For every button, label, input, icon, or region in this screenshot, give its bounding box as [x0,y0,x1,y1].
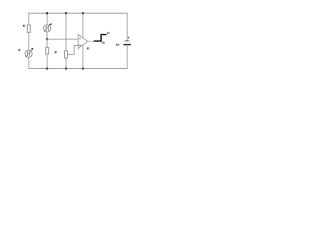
label 9v [107,32,110,35]
label plus polarity [128,37,130,39]
node junction dot mid [46,38,48,40]
node junction dot bottom branch3 [65,68,67,70]
wire R1 to I1 [28,32,30,50]
label C1 value [116,44,119,46]
wire mid node to op-amp inverting input [47,38,78,40]
wire I2 to node [46,32,48,39]
wire branch2 top [46,13,48,25]
waveform step annotation [94,35,107,42]
current source I2 [44,23,52,32]
wire bottom rail [29,68,127,70]
wire left branch upper [28,13,30,25]
node junction dot top rail supply [82,12,84,14]
node junction dot top rail branch2 [46,12,48,14]
current source I1 [25,48,33,58]
label R2 [55,51,57,53]
label R1 [23,25,25,27]
wire R2 to bottom rail [46,54,48,69]
label I1 [18,49,20,51]
wire right branch top [126,13,128,41]
wire supply top stub [82,13,84,37]
node junction dot bottom supply [82,68,84,70]
wire supply bottom stub [82,45,84,69]
wire top rail [29,12,127,14]
node junction dot bottom branch2 [46,68,48,70]
label U1 [87,47,90,49]
wire right branch bottom [126,45,128,69]
label 4v [102,42,105,44]
wire wiper to op-amp noninverting input [74,46,78,55]
wire P1 to bottom rail [65,58,67,69]
node junction dot top rail branch3 [65,12,67,14]
capacitor C1 [123,41,130,45]
wire op-amp output stub [88,40,94,42]
potentiometer P1 [65,51,75,58]
wire I1 to bottom corner [28,57,30,69]
resistor R1 [27,25,30,32]
wire node to R2 [46,39,48,47]
resistor R2 [46,48,49,54]
op-amp U1 [78,34,87,48]
wire branch3 top [65,13,67,51]
